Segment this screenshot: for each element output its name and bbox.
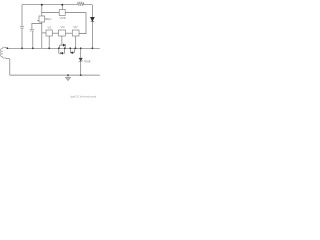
wire mid bus [7, 47, 99, 49]
wire right rail drop [91, 5, 93, 18]
ground [65, 75, 70, 80]
wire left input drop [21, 5, 23, 27]
node bottom-Vout [80, 74, 82, 76]
wire C2 top lead [32, 23, 42, 29]
capacitor C1 [20, 27, 24, 28]
node bus-C1 [21, 47, 23, 49]
wire VD bottom lead [75, 36, 77, 48]
node bus-loopA-right [64, 47, 66, 49]
wire Vout branch upper [80, 48, 82, 58]
wire L1 bottom to gnd line [5, 58, 10, 75]
diode D1 [91, 17, 95, 21]
pin box VS [46, 30, 52, 36]
wire Vout branch lower [80, 61, 82, 75]
node bus-VS [48, 47, 50, 49]
svg-text:VG: VG [60, 25, 65, 29]
wire C1 to bus [21, 28, 23, 48]
pin box VDD [59, 10, 65, 16]
wire body diode loop A [59, 48, 65, 53]
pin box VD [72, 30, 79, 36]
wire body diode loop B [70, 48, 74, 52]
pin box REG [39, 16, 45, 22]
resistor R1 [77, 2, 83, 6]
inductor L1 [1, 47, 5, 58]
wire VG to VD [66, 32, 73, 34]
wire REG to bus [41, 22, 43, 48]
node bus-D1 [92, 47, 94, 49]
wire bottom line [10, 74, 100, 76]
zener D5 [79, 58, 83, 62]
svg-text:Copyright © 2017, Texas Instru: Copyright © 2017, Texas Instruments Inco… [70, 94, 96, 98]
wire VDD row [42, 13, 86, 34]
node rail-REG [41, 4, 43, 6]
svg-text:REG: REG [45, 17, 52, 21]
wire VDD top lead [61, 5, 63, 10]
wire fet bar [60, 45, 66, 48]
diode D3 [61, 52, 63, 54]
node bus-Vout [80, 47, 82, 49]
wire VS to VG [52, 32, 58, 34]
svg-text:VS: VS [47, 25, 51, 29]
wire C2 to bus [32, 31, 34, 48]
wire VS bottom lead [48, 36, 50, 48]
diode D2 [63, 44, 65, 46]
capacitor C2 [30, 30, 35, 31]
wire D1 to bus [91, 22, 93, 49]
node gnd [67, 74, 69, 76]
wire top rail [22, 4, 92, 6]
node bus-VD [75, 47, 77, 49]
node rail-VDD [61, 4, 63, 6]
svg-text:Vout: Vout [84, 60, 90, 64]
node bus-loopB-left [69, 47, 71, 49]
node bus-L1 [7, 47, 9, 49]
pin box VG [59, 30, 66, 36]
diode D4 [71, 52, 73, 54]
svg-text:VD: VD [73, 25, 78, 29]
wire VS left lead [42, 32, 46, 34]
wire L1 top to bus [5, 47, 8, 50]
wire REG drop from rail [41, 5, 43, 16]
svg-text:VDD: VDD [60, 16, 67, 20]
wire VG bottom lead [61, 36, 63, 45]
node bus-C2 [32, 47, 34, 49]
wire REG left stub [37, 19, 39, 21]
node bus-loopA-left [58, 47, 60, 49]
